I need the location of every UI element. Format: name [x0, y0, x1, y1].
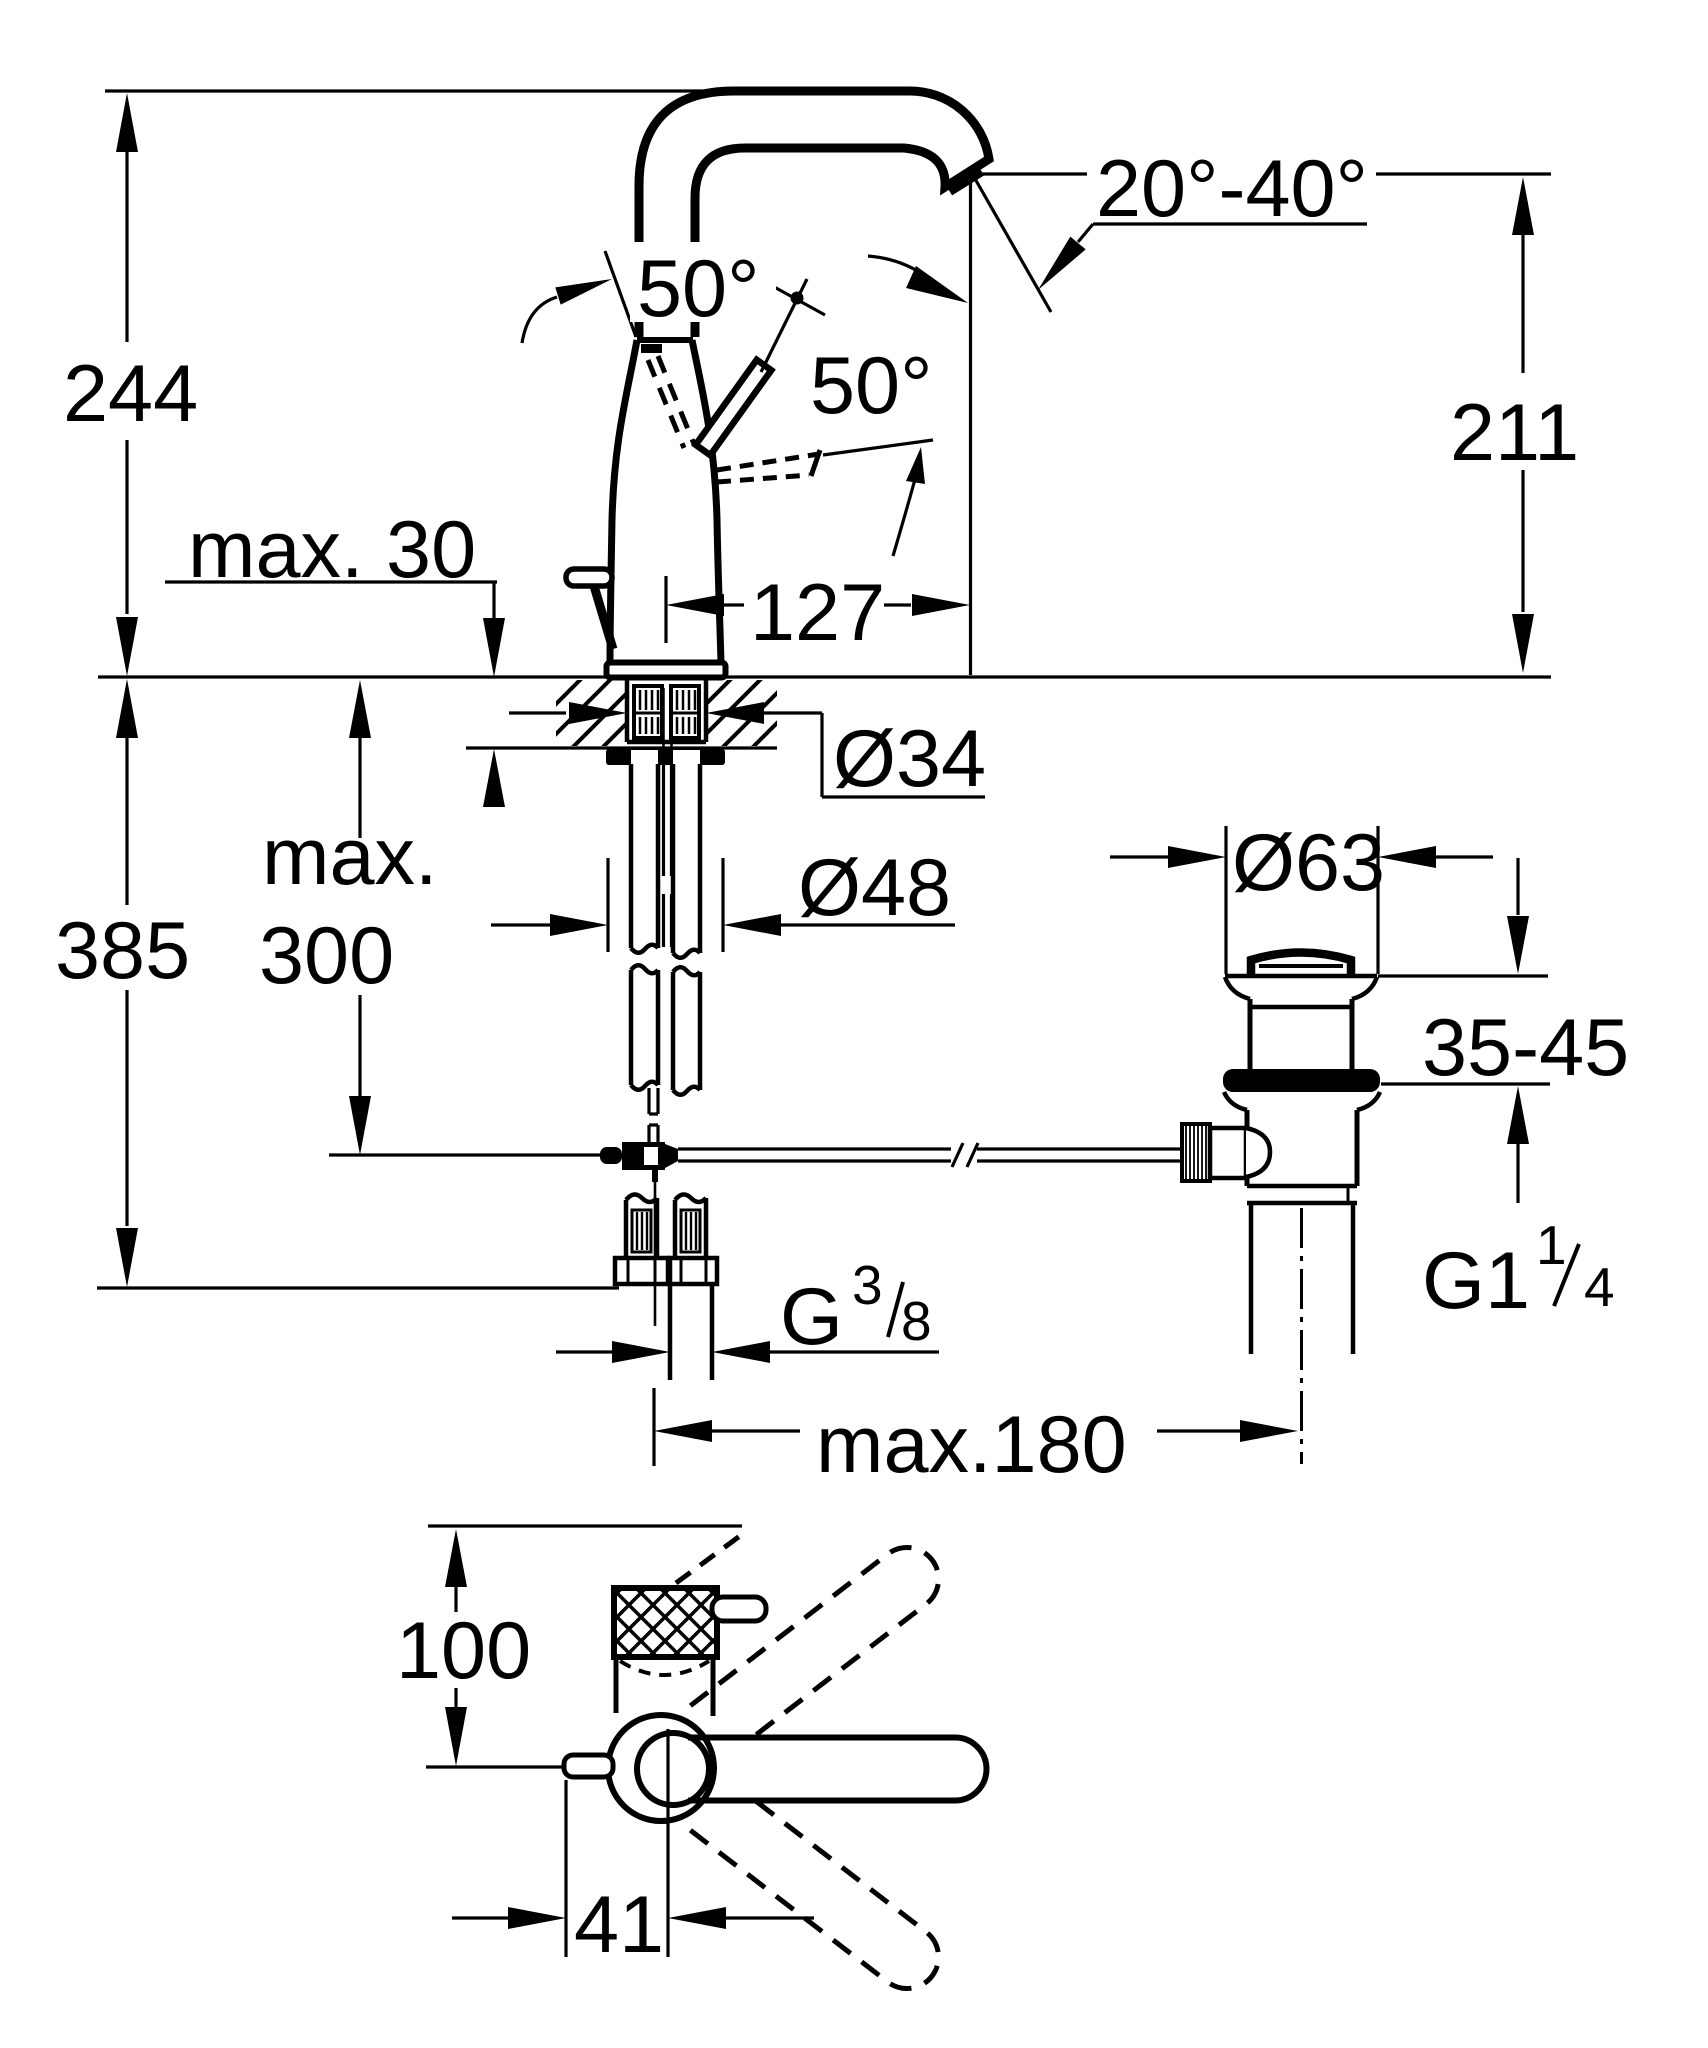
- svg-text:211: 211: [1450, 388, 1579, 478]
- svg-text:8: 8: [901, 1290, 932, 1352]
- svg-text:35-45: 35-45: [1422, 1003, 1629, 1093]
- svg-text:300: 300: [259, 911, 394, 1001]
- svg-text:50°: 50°: [637, 244, 760, 334]
- svg-text:385: 385: [55, 906, 190, 996]
- svg-text:Ø48: Ø48: [798, 843, 951, 933]
- svg-text:G: G: [780, 1272, 843, 1362]
- svg-text:max.: max.: [262, 812, 438, 902]
- svg-text:max.180: max.180: [816, 1400, 1127, 1490]
- svg-text:G1: G1: [1422, 1236, 1530, 1326]
- svg-text:50°: 50°: [810, 341, 933, 431]
- svg-text:4: 4: [1584, 1256, 1615, 1318]
- svg-text:Ø34: Ø34: [833, 714, 986, 804]
- svg-text:244: 244: [63, 349, 198, 439]
- svg-text:127: 127: [750, 568, 885, 658]
- svg-text:3: 3: [852, 1254, 883, 1316]
- svg-text:Ø63: Ø63: [1232, 818, 1385, 908]
- svg-text:max. 30: max. 30: [188, 505, 476, 595]
- svg-text:41: 41: [574, 1880, 664, 1970]
- svg-text:20°-40°: 20°-40°: [1096, 144, 1368, 234]
- svg-text:100: 100: [396, 1606, 531, 1696]
- svg-text:1: 1: [1536, 1214, 1567, 1276]
